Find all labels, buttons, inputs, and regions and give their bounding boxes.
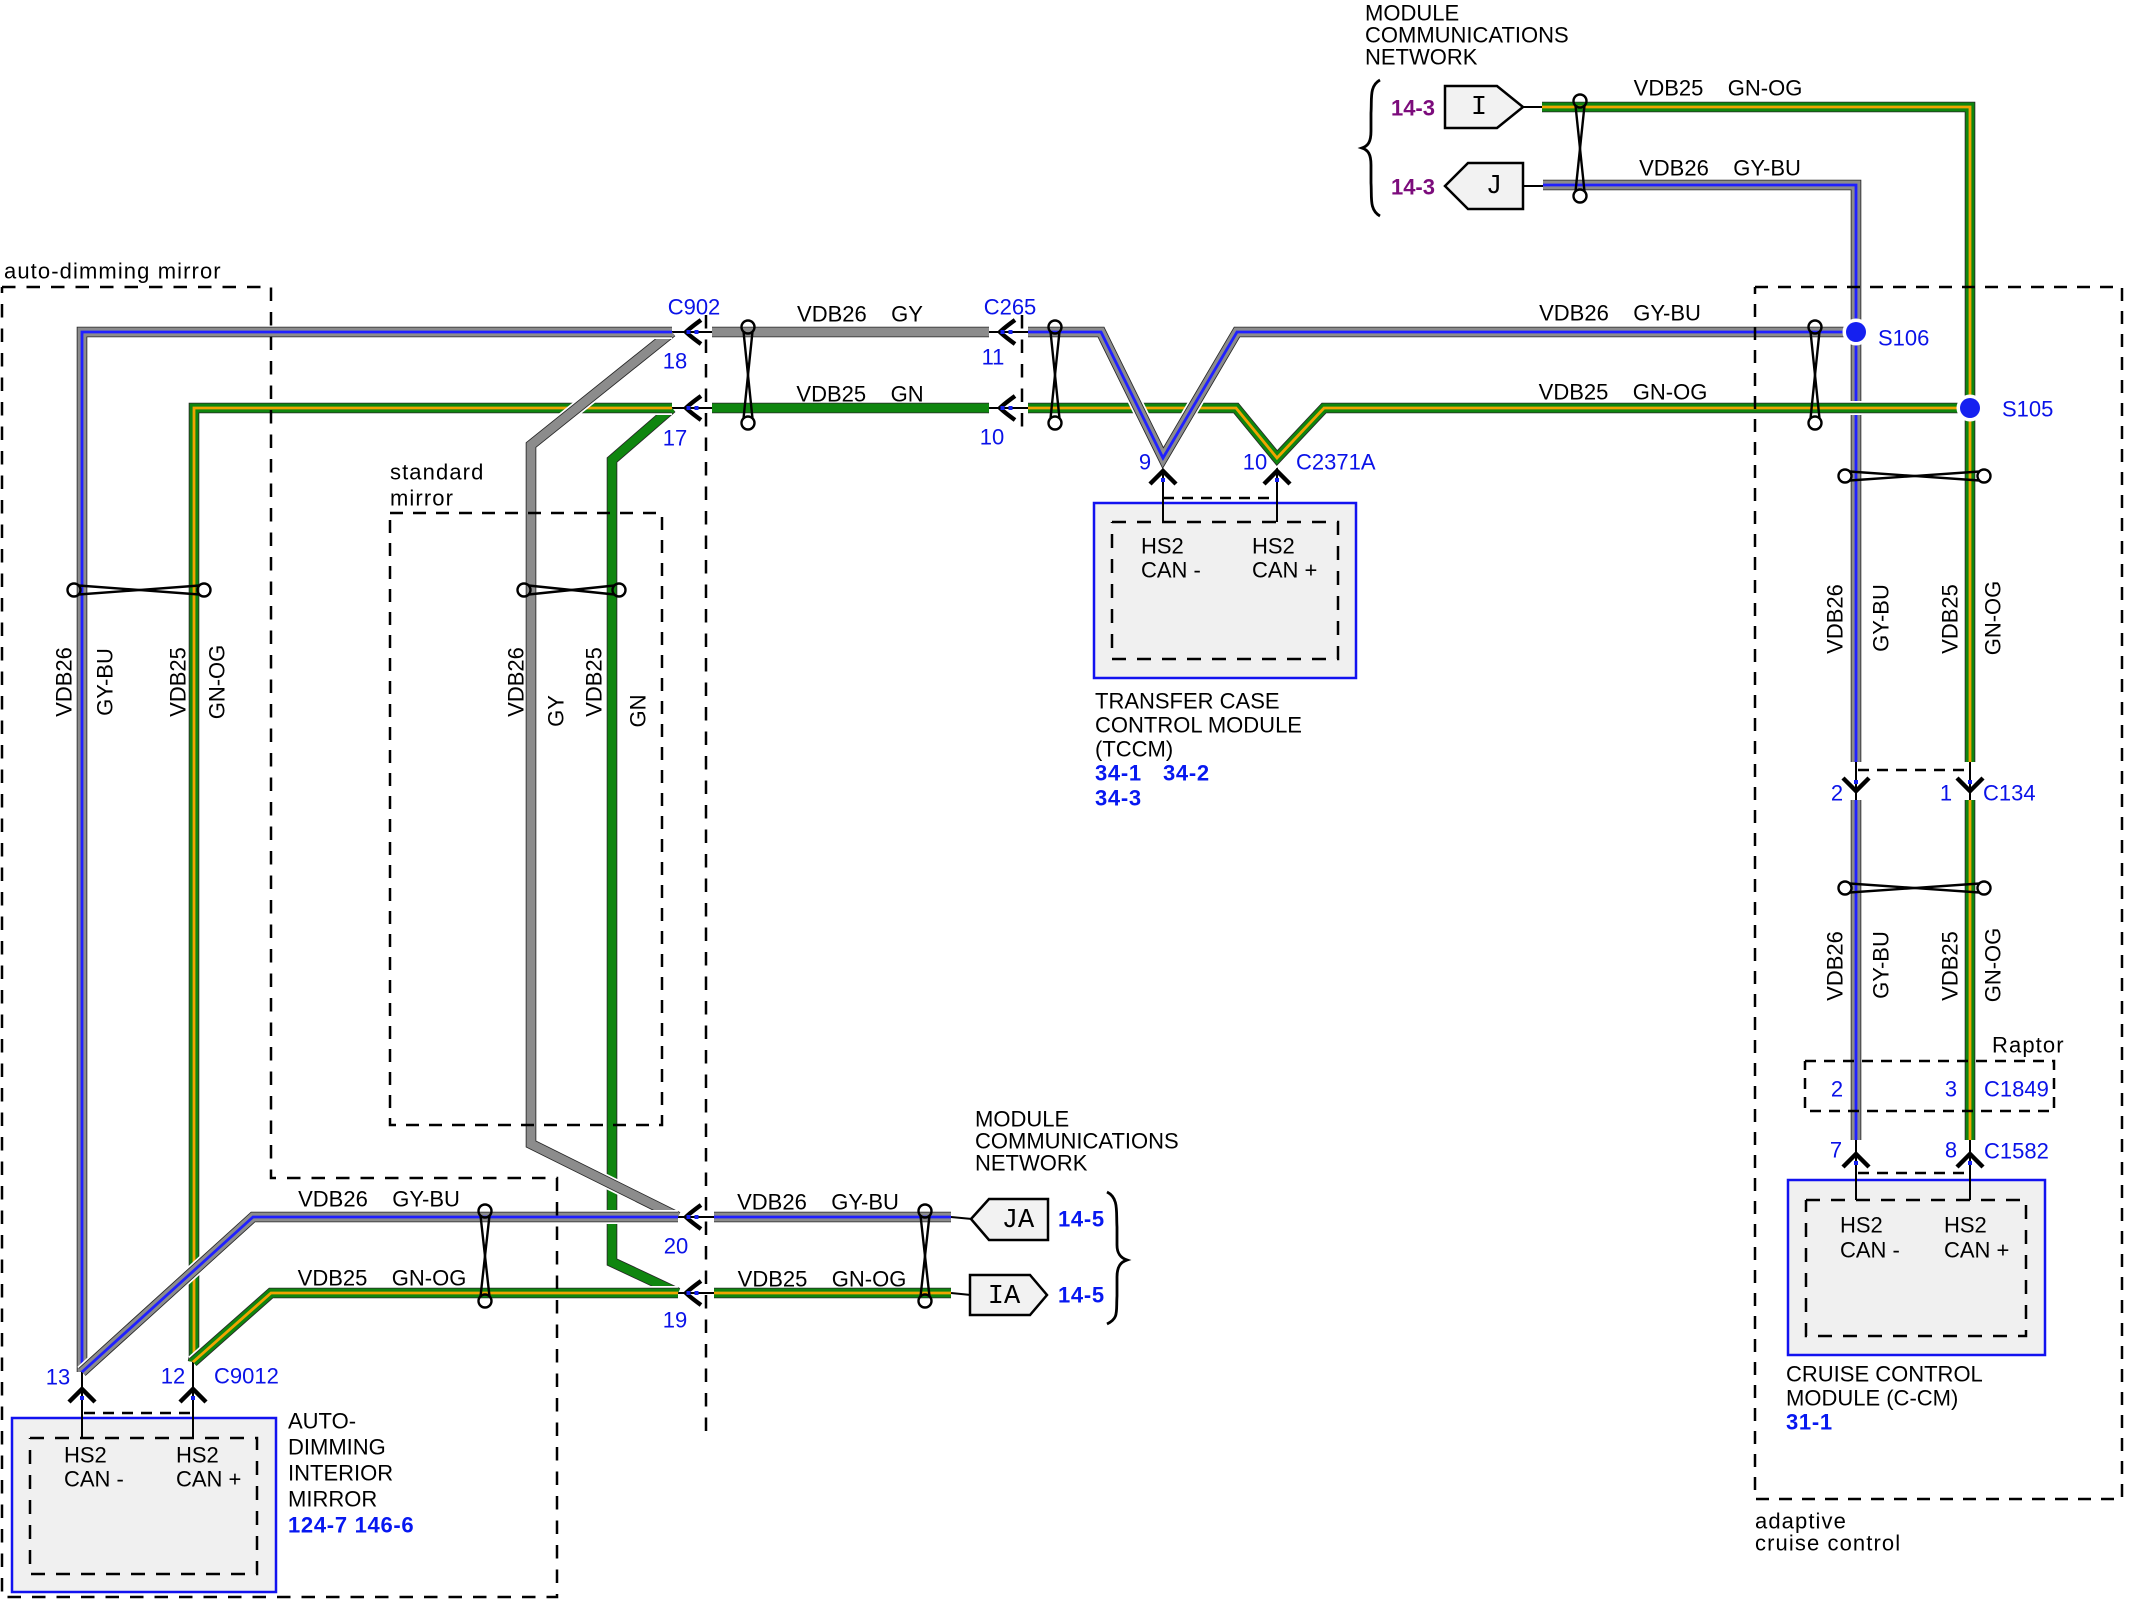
svg-text:13: 13 — [46, 1365, 70, 1390]
wire VDB25 GN-OG (C265-10 to S105, dips to C2371A-10) — [1028, 408, 1970, 458]
arrow C265 pin 11 — [1000, 320, 1015, 344]
wire VDB26 GY-BU (C134-2 to C1582-7 via C1849-2) — [1849, 800, 1863, 1140]
pin line C134 pin 2 — [1855, 762, 1857, 800]
connector flag I — [1445, 86, 1523, 128]
pin line C1582 pin 7 — [1855, 1140, 1857, 1200]
svg-text:CRUISE CONTROL: CRUISE CONTROL — [1786, 1362, 1983, 1387]
svg-text:VDB25: VDB25 — [1938, 931, 1963, 1001]
svg-text:cruise control: cruise control — [1755, 1531, 1901, 1556]
svg-text:NETWORK: NETWORK — [1365, 45, 1478, 70]
pin line C1582 pin 8 — [1969, 1140, 1971, 1200]
svg-text:C9012: C9012 — [214, 1364, 279, 1389]
pin line C2371A pin 9 — [1162, 458, 1164, 522]
svg-text:VDB26 GY-BU: VDB26 GY-BU — [298, 1187, 460, 1212]
svg-text:10: 10 — [1243, 450, 1267, 475]
svg-text:VDB26: VDB26 — [1823, 931, 1848, 1001]
svg-text:CAN +: CAN + — [1252, 558, 1317, 583]
svg-text:CAN -: CAN - — [1840, 1238, 1900, 1263]
wire VDB25 GN-OG (C134-1 to C1582-8 via C1849-3) — [1963, 800, 1977, 1140]
svg-text:GN-OG: GN-OG — [205, 645, 230, 720]
svg-text:JA: JA — [1002, 1206, 1035, 1236]
svg-text:C902: C902 — [668, 295, 721, 320]
svg-text:VDB25 GN-OG: VDB25 GN-OG — [298, 1266, 467, 1291]
svg-text:GY-BU: GY-BU — [1869, 931, 1894, 999]
twisted pair right of C265 — [1049, 321, 1062, 430]
connector C9012 dashed line — [84, 1412, 191, 1415]
svg-text:8: 8 — [1945, 1138, 1957, 1163]
svg-text:VDB26: VDB26 — [1823, 584, 1848, 654]
dashed region: standard mirror — [390, 513, 662, 1125]
twisted pair I/J — [1574, 95, 1587, 203]
svg-text:3: 3 — [1945, 1077, 1957, 1102]
svg-text:I: I — [1471, 93, 1487, 123]
svg-text:14-3: 14-3 — [1391, 175, 1435, 200]
arrow C902 pin 19 — [686, 1281, 701, 1305]
twisted pair auto-dimming verticals — [68, 584, 211, 597]
connector flag JA — [971, 1199, 1048, 1240]
svg-text:VDB25: VDB25 — [166, 647, 191, 717]
svg-text:Raptor: Raptor — [1992, 1033, 2065, 1058]
twisted pair left of S106 — [1809, 321, 1822, 430]
svg-text:18: 18 — [663, 349, 687, 374]
svg-text:GY-BU: GY-BU — [1869, 584, 1894, 652]
svg-text:HS2: HS2 — [1141, 534, 1184, 559]
arrow C902 pin 17 — [686, 396, 701, 420]
svg-text:GN-OG: GN-OG — [1981, 581, 2006, 656]
arrow C902 pin 18 — [686, 320, 701, 344]
svg-text:IA: IA — [988, 1282, 1021, 1312]
svg-text:VDB25 GN-OG: VDB25 GN-OG — [1539, 380, 1708, 405]
twisted pair below C134 — [1839, 882, 1991, 895]
brace 14-3 group — [1362, 80, 1380, 216]
wire VDB26 GY-BU (J flag to C134-2 via S106) — [1543, 185, 1856, 762]
svg-text:14-5: 14-5 — [1058, 1207, 1105, 1232]
svg-text:GN-OG: GN-OG — [1981, 928, 2006, 1003]
connector flag IA — [970, 1275, 1047, 1315]
arrow C2371A pin 10 — [1264, 471, 1290, 484]
svg-text:17: 17 — [663, 426, 687, 451]
svg-text:14-5: 14-5 — [1058, 1283, 1105, 1308]
svg-text:C1849: C1849 — [1984, 1077, 2049, 1102]
dashed region: auto-dimming mirror — [2, 287, 557, 1597]
svg-text:1: 1 — [1940, 781, 1952, 806]
svg-text:10: 10 — [980, 425, 1004, 450]
svg-text:C2371A: C2371A — [1296, 450, 1376, 475]
pin line C265 pin 10 — [989, 407, 1028, 409]
svg-text:mirror: mirror — [390, 486, 454, 511]
svg-text:2: 2 — [1831, 781, 1843, 806]
connector C2371A dashed line — [1163, 497, 1277, 500]
svg-text:VDB26 GY-BU: VDB26 GY-BU — [1639, 156, 1801, 181]
svg-text:14-3: 14-3 — [1391, 96, 1435, 121]
svg-text:VDB26: VDB26 — [52, 647, 77, 717]
arrow C134 pin 2 — [1843, 778, 1869, 791]
svg-text:INTERIOR: INTERIOR — [288, 1461, 393, 1486]
svg-text:VDB25: VDB25 — [582, 647, 607, 717]
wire VDB25 GN-OG (I flag to C134-1 via S105) — [1542, 107, 1970, 762]
pin line C2371A pin 10 — [1276, 458, 1278, 522]
module box: auto-dimming interior mirror — [12, 1418, 276, 1592]
svg-text:MODULE (C-CM): MODULE (C-CM) — [1786, 1386, 1958, 1411]
svg-text:S106: S106 — [1878, 326, 1929, 351]
svg-text:GN: GN — [626, 695, 651, 728]
wire VDB26 GY-BU auto-dimming mirror vertical (C902-18 to C9012-13) — [82, 332, 672, 1372]
svg-text:C134: C134 — [1983, 781, 2036, 806]
twisted pair right of C902 — [742, 321, 755, 430]
svg-text:TRANSFER CASE: TRANSFER CASE — [1095, 689, 1280, 714]
pin line C134 pin 1 — [1969, 762, 1971, 800]
pin line C902 pin 20 — [678, 1216, 714, 1218]
svg-text:HS2: HS2 — [1840, 1213, 1883, 1238]
wire VDB26 GY (C902-18 to C265-11) — [712, 325, 989, 339]
wire VDB25 GN-OG (C902-19 to IA) — [714, 1286, 951, 1300]
svg-text:HS2: HS2 — [176, 1443, 219, 1468]
arrow C902 pin 20 — [686, 1205, 701, 1229]
pin line C902 pin 17 — [672, 407, 712, 409]
wire IA flag lead — [951, 1293, 971, 1295]
wire VDB26 GY-BU (C902-20 to JA) — [714, 1210, 951, 1224]
svg-text:9: 9 — [1139, 450, 1151, 475]
dashed region: adaptive cruise control — [1755, 287, 2122, 1499]
svg-text:CAN -: CAN - — [64, 1467, 124, 1492]
arrow C2371A pin 9 — [1150, 471, 1176, 484]
svg-text:HS2: HS2 — [1252, 534, 1295, 559]
brace JA 14-5 group — [1107, 1192, 1127, 1324]
svg-text:HS2: HS2 — [64, 1443, 107, 1468]
svg-text:7: 7 — [1830, 1138, 1842, 1163]
wire I flag lead — [1523, 106, 1542, 108]
svg-text:AUTO-: AUTO- — [288, 1409, 356, 1434]
svg-text:VDB26 GY-BU: VDB26 GY-BU — [737, 1190, 899, 1215]
splice S105 — [1957, 395, 1984, 422]
wire VDB25 GN (C902-17 to C265-10) — [712, 401, 989, 415]
connector C1582 dashed line — [1858, 1172, 1964, 1175]
arrow C265 pin 10 — [1000, 396, 1015, 420]
svg-text:12: 12 — [161, 1364, 185, 1389]
svg-text:124-7 146-6: 124-7 146-6 — [288, 1513, 414, 1538]
wire JA flag lead — [951, 1217, 972, 1219]
wire VDB25 GN standard mirror (C902-17 to C902-19) — [612, 408, 678, 1293]
arrow C9012 pin 13 — [69, 1389, 95, 1402]
wire VDB26 GY-BU (C265-11 to S106, dips to C2371A-9) — [1028, 332, 1851, 458]
svg-text:VDB25 GN-OG: VDB25 GN-OG — [1634, 76, 1803, 101]
svg-text:CONTROL MODULE: CONTROL MODULE — [1095, 713, 1302, 738]
wire VDB26 GY-BU (C902-20 to C9012-13) — [82, 1217, 678, 1372]
arrow C134 pin 1 — [1957, 778, 1983, 791]
pin line C265 pin 11 — [989, 331, 1028, 333]
svg-text:CAN +: CAN + — [1944, 1238, 2009, 1263]
svg-text:CAN +: CAN + — [176, 1467, 241, 1492]
wire VDB25 GN-OG auto-dimming mirror vertical (C902-17 to C9012-12) — [193, 408, 672, 1362]
pin line C902 pin 18 — [672, 331, 712, 333]
connector C265 dashed line — [1021, 315, 1024, 437]
twisted pair below S105 — [1839, 470, 1991, 483]
arrow C9012 pin 12 — [180, 1389, 206, 1402]
module box: TCCM — [1094, 503, 1356, 678]
svg-text:31-1: 31-1 — [1786, 1410, 1833, 1435]
connector C1849 dashed box (Raptor) — [1805, 1061, 2054, 1111]
connector C902 dashed line — [705, 315, 708, 1439]
connector flag J — [1445, 163, 1523, 209]
svg-text:VDB26: VDB26 — [504, 647, 529, 717]
svg-text:C265: C265 — [984, 295, 1037, 320]
svg-text:VDB25 GN-OG: VDB25 GN-OG — [738, 1267, 907, 1292]
twisted pair mirror horizontals — [479, 1205, 492, 1308]
module box: C-CM — [1788, 1180, 2045, 1355]
twisted pair JA/IA — [919, 1205, 932, 1308]
svg-text:standard: standard — [390, 460, 484, 485]
svg-text:J: J — [1486, 172, 1502, 202]
connector C134 dashed line — [1858, 769, 1964, 772]
twisted pair standard mirror verticals — [518, 584, 626, 597]
svg-text:C1582: C1582 — [1984, 1139, 2049, 1164]
pin line C9012 pin 13 — [81, 1372, 83, 1438]
svg-text:VDB26 GY-BU: VDB26 GY-BU — [1539, 301, 1701, 326]
svg-text:20: 20 — [664, 1234, 688, 1259]
pin line C9012 pin 12 — [192, 1362, 194, 1438]
arrow C1582 pin 7 — [1843, 1154, 1869, 1167]
svg-text:auto-dimming mirror: auto-dimming mirror — [4, 259, 222, 284]
svg-text:GY: GY — [544, 695, 569, 727]
svg-text:(TCCM): (TCCM) — [1095, 737, 1173, 762]
svg-text:34-2: 34-2 — [1163, 761, 1210, 786]
pin line C902 pin 19 — [678, 1292, 714, 1294]
svg-text:DIMMING: DIMMING — [288, 1435, 386, 1460]
svg-text:VDB25: VDB25 — [1938, 584, 1963, 654]
svg-text:HS2: HS2 — [1944, 1213, 1987, 1238]
splice S106 — [1843, 319, 1870, 346]
svg-text:NETWORK: NETWORK — [975, 1151, 1088, 1176]
arrow C1582 pin 8 — [1957, 1154, 1983, 1167]
wire VDB26 GY standard mirror (C902-18 to C902-20) — [531, 332, 678, 1217]
wire VDB25 GN-OG (C902-19 to C9012-12) — [193, 1293, 678, 1362]
svg-text:CAN -: CAN - — [1141, 558, 1201, 583]
svg-text:11: 11 — [982, 345, 1005, 370]
svg-text:MIRROR: MIRROR — [288, 1487, 377, 1512]
svg-text:VDB26 GY: VDB26 GY — [797, 302, 923, 327]
svg-text:VDB25 GN: VDB25 GN — [796, 382, 923, 407]
svg-text:34-1: 34-1 — [1095, 761, 1142, 786]
svg-text:2: 2 — [1831, 1077, 1843, 1102]
svg-text:34-3: 34-3 — [1095, 786, 1142, 811]
svg-text:19: 19 — [663, 1308, 687, 1333]
svg-text:S105: S105 — [2002, 397, 2053, 422]
wire J flag lead — [1523, 185, 1543, 187]
svg-text:GY-BU: GY-BU — [93, 648, 118, 716]
